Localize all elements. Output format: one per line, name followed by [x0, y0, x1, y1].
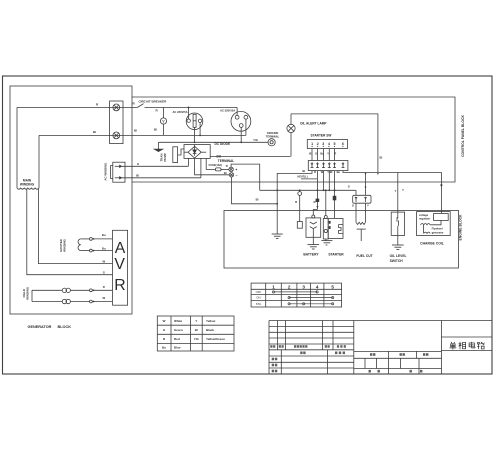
DC terminal minus — [229, 173, 233, 177]
wire R breaker to receptacles — [145, 106, 238, 108]
svg-text:ENGINE BLOCK: ENGINE BLOCK — [459, 214, 463, 241]
svg-text:Black: Black — [206, 328, 214, 332]
title block — [269, 321, 492, 375]
wire G from AC winding to bridge — [122, 165, 189, 167]
wire Bu pin6 to charge coil — [343, 171, 441, 214]
svg-text:CHARGE COIL: CHARGE COIL — [420, 242, 444, 246]
wire Bl from main winding — [39, 134, 246, 136]
oil level switch — [391, 173, 404, 245]
voltmeter V1 — [160, 107, 166, 135]
svg-text:Bu: Bu — [102, 233, 106, 237]
svg-text:1: 1 — [311, 142, 313, 146]
svg-text:R: R — [103, 285, 105, 289]
svg-text:−: − — [236, 174, 238, 178]
svg-text:AC WINDING: AC WINDING — [103, 162, 107, 181]
wire Bl pin1 to engine ground — [277, 171, 312, 234]
wire R from main winding to circuit breaker — [17, 106, 138, 108]
sta position link — [288, 303, 334, 305]
svg-text:TERMINAL: TERMINAL — [218, 159, 235, 163]
svg-text:Bl: Bl — [136, 174, 139, 178]
svg-text:Bl: Bl — [380, 155, 383, 159]
svg-text:STA: STA — [256, 302, 261, 306]
wire lamp to connector strip — [210, 155, 290, 157]
svg-text:Red: Red — [174, 337, 180, 341]
drawing title 单相电路 — [450, 342, 485, 350]
wire color legend table — [157, 316, 234, 351]
svg-text:G: G — [352, 204, 354, 208]
svg-text:BLOCK: BLOCK — [58, 325, 72, 329]
svg-text:Y: Y — [327, 151, 329, 155]
DC terminal plus — [229, 167, 233, 171]
wire R pin2 to battery — [316, 171, 318, 210]
main winding tap G wire to AVR — [27, 189, 113, 275]
svg-text:Bl: Bl — [303, 169, 306, 173]
svg-text:Bu: Bu — [102, 246, 106, 250]
svg-text:2: 2 — [288, 284, 291, 289]
svg-text:FUEL CUT: FUEL CUT — [356, 254, 372, 258]
svg-text:Green: Green — [174, 328, 183, 332]
svg-text:White: White — [174, 319, 182, 323]
labels under connector — [303, 169, 341, 174]
svg-text:V: V — [114, 256, 125, 273]
svg-text:3: 3 — [322, 142, 324, 146]
svg-text:CONTROL PANEL BLOCK: CONTROL PANEL BLOCK — [461, 115, 465, 157]
svg-text:Bu: Bu — [337, 170, 341, 174]
svg-text:Y: Y — [195, 319, 197, 323]
fuel cut connector — [353, 195, 371, 203]
svg-text:WINDING: WINDING — [20, 183, 35, 187]
svg-text:Bl: Bl — [256, 197, 259, 201]
wire Y/G to ground terminal — [159, 141, 269, 143]
svg-text:HEAT(L): HEAT(L) — [297, 175, 307, 179]
svg-text:R: R — [114, 277, 125, 294]
svg-text:5: 5 — [331, 284, 334, 289]
svg-text:DC: DC — [216, 154, 221, 158]
svg-text:Blue: Blue — [174, 346, 181, 350]
svg-text:TERMINAL: TERMINAL — [266, 134, 280, 138]
main winding tap W wire to AVR — [39, 189, 113, 264]
svg-text:G: G — [348, 185, 350, 189]
svg-text:OIL LEVEL: OIL LEVEL — [390, 254, 407, 258]
main winding — [17, 107, 39, 189]
svg-text:W: W — [102, 259, 105, 263]
svg-text:Yellow: Yellow — [206, 319, 216, 323]
svg-text:AC 220V/5A: AC 220V/5A — [220, 109, 235, 113]
svg-text:BATTERY: BATTERY — [303, 253, 319, 257]
svg-text:W: W — [163, 319, 166, 323]
title block tiny chinese labels — [270, 345, 428, 372]
fuel cut solenoid — [356, 203, 366, 241]
starter sw connector row — [308, 161, 348, 171]
svg-text:CIRCUIT BREAKER: CIRCUIT BREAKER — [139, 100, 168, 104]
svg-text:G: G — [137, 162, 139, 166]
bridge AC input from AC winding G — [187, 158, 189, 166]
svg-text:Bl: Bl — [93, 130, 96, 134]
svg-text:2: 2 — [317, 142, 319, 146]
starter ground — [321, 241, 332, 245]
wire color labels between switch rows — [309, 151, 336, 155]
bridge AC input from AC winding Bl — [200, 158, 202, 177]
AVR — [113, 230, 128, 305]
svg-text:OIL ALERT LAMP: OIL ALERT LAMP — [300, 122, 327, 126]
svg-text:R: R — [314, 170, 316, 174]
svg-text:4: 4 — [328, 142, 330, 146]
starter feed wire from pin5 — [334, 171, 336, 219]
svg-text:G: G — [315, 151, 317, 155]
svg-text:Bu: Bu — [162, 346, 166, 350]
svg-text:Bl: Bl — [154, 128, 157, 132]
svg-text:OFF: OFF — [256, 290, 262, 294]
svg-text:W: W — [102, 296, 105, 300]
svg-text:3: 3 — [302, 284, 305, 289]
svg-text:PUMP: PUMP — [163, 153, 167, 161]
starter switch position table — [251, 283, 342, 307]
svg-text:WINDING: WINDING — [62, 238, 66, 252]
wire G dc plus bus — [260, 189, 356, 191]
svg-text:WINDING: WINDING — [25, 286, 29, 300]
svg-text:R: R — [226, 164, 228, 168]
svg-text:R: R — [295, 200, 297, 204]
svg-text:voltage: voltage — [419, 213, 429, 217]
svg-text:A: A — [115, 240, 126, 257]
svg-text:R: R — [313, 200, 315, 204]
battery — [306, 210, 321, 245]
bridge minus output wire — [195, 158, 230, 174]
tran pump — [154, 142, 162, 151]
svg-text:Bl: Bl — [224, 171, 227, 175]
connector strip left of bridge — [173, 147, 188, 163]
svg-text:Y/G: Y/G — [253, 138, 258, 142]
svg-text:regulator: regulator — [419, 217, 430, 221]
control panel block — [132, 97, 455, 182]
svg-text:Y: Y — [367, 203, 369, 207]
svg-text:GENERATOR: GENERATOR — [28, 325, 52, 329]
svg-text:Flywheel: Flywheel — [432, 226, 443, 230]
connector pins — [311, 162, 345, 168]
generator block label — [28, 325, 72, 329]
wire from DC minus terminal — [232, 177, 278, 204]
svg-text:SWITCH: SWITCH — [390, 259, 404, 263]
svg-text:+: + — [235, 168, 237, 172]
wire from DC plus terminal — [231, 164, 260, 190]
starter sw pin links — [312, 149, 335, 161]
svg-text:4: 4 — [316, 284, 319, 289]
generator block — [10, 86, 132, 314]
starter — [323, 190, 343, 241]
svg-text:FUSE(10A): FUSE(10A) — [209, 163, 223, 167]
connector bullet R — [297, 190, 302, 228]
svg-text:Y/Bl: Y/Bl — [327, 170, 332, 174]
terminal connector block — [110, 101, 123, 144]
bridge plus output to fuse — [206, 158, 215, 169]
pin numbers 1-6 — [311, 142, 344, 146]
svg-text:ON: ON — [256, 296, 260, 300]
battery ground — [308, 245, 320, 249]
svg-text:AC 220V/5A: AC 220V/5A — [172, 110, 187, 114]
svg-text:Y: Y — [402, 188, 404, 192]
svg-text:G: G — [103, 271, 105, 275]
svg-text:Bl: Bl — [134, 129, 137, 133]
wire Bl from AC winding to bridge — [122, 177, 201, 179]
svg-text:generator: generator — [432, 231, 444, 235]
svg-text:Y/G: Y/G — [194, 337, 200, 341]
svg-text:Yellow/Green: Yellow/Green — [206, 337, 225, 341]
svg-text:1: 1 — [272, 284, 275, 289]
svg-text:Y: Y — [395, 189, 397, 193]
charge coil — [417, 212, 451, 236]
engine ground — [272, 234, 283, 238]
wire lamp top to starter sw feed — [291, 114, 378, 172]
wire Y/Bl pin4 drop and junction dots — [328, 171, 330, 191]
wire W pin3 stub — [323, 171, 325, 191]
on position link — [288, 297, 334, 299]
svg-text:5: 5 — [334, 142, 336, 146]
svg-text:STARTER: STARTER — [328, 253, 344, 257]
engine block — [224, 211, 459, 269]
svg-text:STARTER SW: STARTER SW — [311, 133, 332, 137]
svg-text:DC DIODE: DC DIODE — [215, 142, 231, 146]
svg-text:6: 6 — [342, 142, 344, 146]
svg-text:Bl: Bl — [195, 328, 198, 332]
off position link — [272, 291, 318, 293]
